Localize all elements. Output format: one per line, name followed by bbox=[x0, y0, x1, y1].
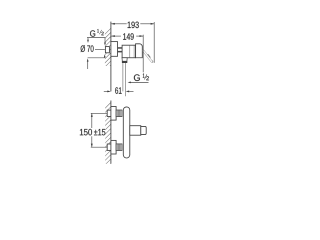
G12 right down arrow bbox=[104, 38, 106, 44]
hose nut dark bbox=[122, 61, 127, 63]
wall hatch bottom view bbox=[103, 100, 113, 175]
threaded nipple upper bar bbox=[118, 47, 123, 49]
up arrow below reference line bbox=[87, 61, 89, 69]
up arrow at nut bottom bbox=[104, 54, 106, 57]
flange escutcheon side view bbox=[111, 42, 118, 57]
body capsule front view bbox=[123, 107, 130, 158]
small 1 bbox=[97, 29, 98, 32]
dim 149 arrows bbox=[111, 35, 115, 37]
dim 193 line bbox=[111, 23, 127, 25]
label G 1/2 lower: G bbox=[134, 74, 140, 81]
lever open position blade bbox=[142, 50, 153, 63]
wall line top view bbox=[110, 22, 112, 92]
ext line right of 193 bbox=[153, 22, 155, 63]
body ring line bbox=[133, 45, 135, 58]
hose line left bbox=[122, 63, 124, 91]
dim 149 line bbox=[111, 35, 121, 37]
label O 70 bbox=[81, 45, 94, 52]
top nipple bbox=[116, 110, 122, 117]
O70 leader bbox=[95, 48, 105, 50]
leader line: 149 ext + lower G12 leader bbox=[142, 35, 144, 73]
bottom union nut behind wall bbox=[107, 144, 111, 150]
lever blade tip shade bbox=[151, 61, 154, 63]
handle arm bbox=[130, 126, 141, 136]
G12 left down arrow bbox=[87, 40, 89, 43]
small 2 bbox=[101, 32, 103, 35]
lower reference line bbox=[88, 57, 105, 59]
threaded nipple lower bar bbox=[118, 51, 123, 53]
ext line top bbox=[91, 112, 108, 114]
wall hatch top view bbox=[103, 26, 113, 77]
top union nut behind wall bbox=[107, 110, 111, 116]
text +-15 bbox=[94, 129, 105, 135]
fraction slash bbox=[144, 74, 147, 79]
hose line right / ext for 61 bbox=[125, 63, 127, 96]
fraction slash bbox=[100, 30, 102, 34]
text 149 bbox=[123, 33, 134, 40]
top flange bbox=[111, 107, 116, 121]
ext line bottom bbox=[91, 146, 108, 148]
union nut behind wall bbox=[105, 47, 109, 53]
text 61 bbox=[115, 87, 121, 94]
dim 150+-15 vertical line bbox=[91, 113, 93, 128]
lower G12 underline with left arrow bbox=[130, 81, 148, 83]
cartridge cap bbox=[136, 44, 143, 58]
bottom flange bbox=[111, 140, 116, 154]
bottom nipple bbox=[116, 144, 122, 151]
body section line bbox=[129, 45, 131, 58]
small 2 bbox=[146, 76, 149, 80]
text 193 bbox=[128, 22, 139, 29]
mixer body bbox=[122, 45, 136, 58]
lever blade shadow dash bbox=[148, 54, 151, 57]
label G 1/2 top: G bbox=[90, 30, 95, 36]
dim 61 bbox=[104, 90, 108, 92]
wall line bottom view bbox=[110, 101, 112, 164]
outlet below body bbox=[122, 58, 127, 61]
dim 193 arrows bbox=[111, 23, 115, 25]
small 1 bbox=[143, 73, 145, 77]
G12 underline bbox=[87, 37, 105, 39]
handle end cap bbox=[141, 126, 146, 134]
text 150 bbox=[80, 129, 92, 136]
